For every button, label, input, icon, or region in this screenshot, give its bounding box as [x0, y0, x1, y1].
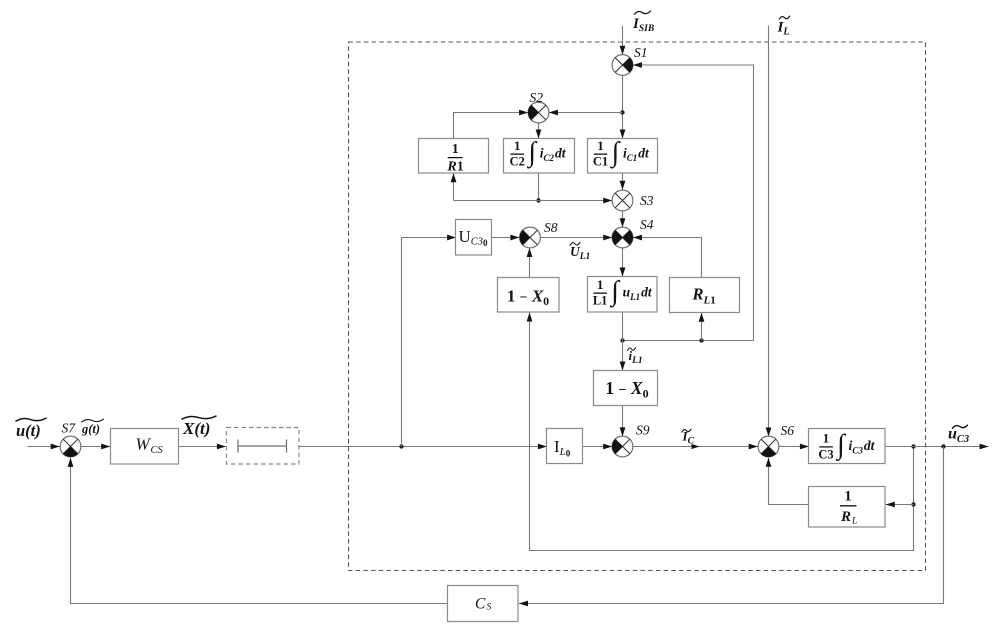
wire: W_CS output X(t) into pulse element — [179, 446, 226, 448]
svg-text:1: 1 — [844, 489, 852, 505]
wire: junction to S2 right input — [549, 112, 623, 114]
svg-text:S9: S9 — [636, 423, 650, 438]
svg-text:L1: L1 — [593, 294, 608, 308]
node: i_L1 signal label — [628, 348, 643, 366]
wire: branch up from main row into U_C30 input — [402, 238, 457, 447]
wire: S1 output down to 1/C1 block with junction — [622, 76, 624, 139]
block 1-X0 (lower, feeds S9) — [594, 371, 658, 406]
block 1/R_L load conductance — [809, 487, 886, 528]
wire: S9 output I_C into S6 left input — [633, 446, 758, 448]
wire: i_L1 node row toward feedback and R_L1 — [623, 340, 754, 342]
wire: I_L input drop into S6 — [768, 26, 770, 437]
svg-text:C2: C2 — [510, 155, 525, 169]
wire: I_SIB input drop into S1 — [622, 26, 624, 55]
svg-text:1 − X0: 1 − X0 — [507, 286, 549, 308]
svg-text:u(t): u(t) — [16, 421, 41, 440]
block R_L1 — [670, 278, 740, 313]
wire: u(t) input into S7 — [28, 446, 60, 448]
svg-text:W: W — [136, 435, 152, 454]
svg-text:1: 1 — [823, 431, 830, 446]
summing junction S9 — [612, 423, 650, 457]
block 1/L1 integral of u_L1 dt — [588, 276, 658, 312]
node: junction branching to U_C30 — [399, 444, 403, 448]
wire: S6 output into 1/C3 block — [779, 446, 809, 448]
node: junction feeding R_L1 — [699, 338, 703, 342]
wire: 1/R1 output up and right into S2 left input — [454, 113, 529, 139]
node: I_C signal label — [682, 429, 695, 447]
wire: u_C3 feedback down-left-up into first 1-X0 bottom — [530, 313, 914, 551]
node: I_L signal label — [777, 16, 790, 37]
wire: 1/C1 output down into S3 top — [622, 173, 624, 190]
summing junction S7 — [60, 421, 81, 457]
block U_C30 initial value — [456, 220, 492, 256]
svg-text:S7: S7 — [62, 421, 77, 436]
svg-text:L: L — [851, 517, 857, 527]
svg-text:1: 1 — [514, 138, 521, 153]
summing junction S6 — [758, 423, 794, 457]
block I_L0 initial value — [547, 429, 583, 464]
wire: feedback from i_L1 row up into R_L1 bottom — [701, 313, 703, 341]
node: U_L1 signal label — [570, 242, 590, 262]
block 1/C2 integral of i_C2 dt — [504, 137, 575, 173]
wire: u_C3 output line to the right — [885, 446, 989, 448]
wire: 1/R_L output left and up into S6 bottom — [769, 458, 810, 505]
wire: S3 output into S4 top — [622, 211, 624, 227]
block 1/R1 — [419, 139, 489, 175]
wire: 1/C2 output down to feedback row — [538, 173, 540, 201]
wire: i_L1 node down into second 1-X0 block — [622, 341, 624, 371]
wire: U_C30 output into S8 left input — [492, 237, 520, 239]
block C_S feedback element — [448, 586, 519, 622]
dashed subsystem boundary box — [349, 42, 926, 571]
wire: junction into 1/R_L input — [886, 504, 914, 506]
svg-text:S6: S6 — [781, 423, 795, 438]
block 1/C3 integral of i_C3 dt — [809, 429, 886, 464]
summing junction S2 — [528, 90, 549, 123]
block 1/C1 integral of i_C1 dt — [588, 137, 658, 173]
block pulse element (dashed) — [227, 428, 300, 465]
svg-text:C: C — [475, 596, 486, 613]
node: junction on S1 output feeding S2 — [620, 110, 624, 114]
svg-text:R: R — [692, 285, 704, 304]
node: g(t) signal label — [81, 419, 104, 436]
node: junction on u_C3 output line — [911, 444, 915, 448]
wire: 1/L1 output down to i_L1 node — [622, 312, 624, 341]
svg-text:R1: R1 — [446, 160, 463, 175]
node: X(t) signal label — [182, 416, 216, 438]
node: junction on capacitor feedback row — [536, 198, 540, 202]
wire: feedback from i_L1 node up to S1 right input — [633, 65, 754, 341]
svg-text:1 − X0: 1 − X0 — [605, 378, 648, 401]
wire: S8 output U_L1 into S4 left input — [540, 237, 612, 239]
svg-text:1: 1 — [452, 142, 459, 157]
wire: second 1-X0 output down into S9 top — [622, 406, 624, 437]
summing junction S3 — [612, 190, 654, 211]
node: junction feeding 1/R_L — [911, 502, 915, 506]
svg-text:1: 1 — [597, 138, 604, 153]
wire: feedback row into S3 left input and up into 1/R1 — [454, 200, 613, 202]
summing junction S4 — [612, 217, 654, 248]
node: u_C3 output label — [948, 425, 969, 445]
wire: S2 output down into 1/C2 block — [538, 123, 540, 139]
summing junction S8 — [520, 220, 558, 248]
svg-text:S8: S8 — [544, 220, 558, 235]
svg-text:S3: S3 — [640, 193, 654, 208]
svg-text:CS: CS — [151, 445, 164, 456]
svg-text:S2: S2 — [530, 90, 544, 105]
block W_CS controller — [111, 429, 179, 465]
svg-text:S4: S4 — [640, 217, 654, 232]
svg-text:C3: C3 — [818, 447, 833, 461]
svg-text:X(t): X(t) — [182, 419, 210, 438]
wire: S7 output g(t) into W_CS — [81, 446, 111, 448]
wire: C_S output back to S7 bottom input — [71, 458, 449, 604]
svg-text:S: S — [487, 603, 492, 613]
block 1-X0 (upper, feeds S8) — [498, 278, 560, 313]
svg-text:R: R — [840, 509, 851, 525]
node: junction feeding C_S feedback — [941, 444, 945, 448]
svg-text:1: 1 — [597, 277, 604, 292]
wire: S4 output down into 1/L1 block — [622, 248, 624, 277]
svg-text:g(t): g(t) — [81, 422, 100, 436]
wire: pulse element output across boundary into I_L0 — [299, 446, 547, 448]
summing junction S1 — [612, 45, 647, 75]
svg-text:S1: S1 — [634, 45, 648, 60]
node: I_SIB signal label — [632, 11, 654, 34]
svg-text:C1: C1 — [593, 155, 608, 169]
wire: R_L1 output up and left into S4 right input — [633, 238, 702, 278]
wire: first 1-X0 output up into S8 bottom — [529, 248, 531, 278]
wire: u_C3 down to C_S block — [519, 447, 944, 604]
node: u(t) input label — [16, 418, 46, 440]
node: i_L1 junction — [620, 338, 624, 342]
svg-text:L1: L1 — [703, 295, 716, 307]
wire: I_L0 output into S9 left input — [583, 446, 613, 448]
